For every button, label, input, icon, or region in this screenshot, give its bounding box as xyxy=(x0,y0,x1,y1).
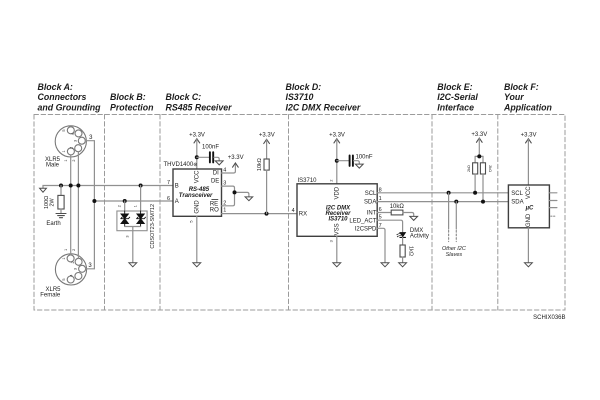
svg-text:1: 1 xyxy=(62,150,66,152)
ground C1 xyxy=(215,161,223,165)
svg-text:I2C-Serial: I2C-Serial xyxy=(437,92,478,102)
svg-text:Block F:: Block F: xyxy=(504,82,539,92)
label other I2C slaves xyxy=(442,246,466,258)
label LED D2 xyxy=(410,228,429,240)
power +3.3V VCC U1 xyxy=(189,133,205,169)
ground INT xyxy=(410,216,418,220)
header Block D xyxy=(286,82,361,113)
svg-text:SCHIX036B: SCHIX036B xyxy=(533,315,565,321)
header Block B xyxy=(110,92,154,112)
svg-text:1: 1 xyxy=(64,249,68,251)
wire uC stub dots xyxy=(551,215,556,217)
wire I2CSPD xyxy=(377,228,385,262)
block boundary A|B xyxy=(104,115,106,311)
svg-text:6: 6 xyxy=(167,196,170,202)
svg-text:+3.3V: +3.3V xyxy=(329,133,345,139)
block boundary E|F xyxy=(497,115,499,311)
label XLR5 Male xyxy=(45,157,61,168)
svg-text:Connectors: Connectors xyxy=(38,92,87,102)
svg-text:Block B:: Block B: xyxy=(110,92,146,102)
svg-text:5: 5 xyxy=(62,278,66,280)
svg-text:10kΩ: 10kΩ xyxy=(257,158,263,171)
svg-text:Female: Female xyxy=(40,292,61,298)
svg-text:2: 2 xyxy=(69,147,73,149)
svg-text:3: 3 xyxy=(73,140,77,142)
label U1 pin RE xyxy=(210,200,218,208)
wire LED_ACT xyxy=(377,220,402,232)
svg-text:2: 2 xyxy=(71,261,75,263)
svg-text:2W: 2W xyxy=(49,197,55,206)
svg-text:Slaves: Slaves xyxy=(446,252,463,258)
svg-text:Block D:: Block D: xyxy=(286,82,322,92)
svg-text:7: 7 xyxy=(167,180,170,186)
svg-text:SCL: SCL xyxy=(365,191,377,197)
junction dot TVS pin1 xyxy=(139,184,143,188)
connector J2 pin digits xyxy=(62,258,78,281)
capacitor C1 100nF xyxy=(197,152,219,162)
svg-text:Male: Male xyxy=(46,163,60,169)
svg-text:GND: GND xyxy=(194,200,200,214)
wire SDA xyxy=(377,201,508,203)
junction dot resistor tap xyxy=(59,184,63,188)
svg-text:GND: GND xyxy=(526,213,532,227)
resistor R6 2k SDA xyxy=(480,163,485,202)
ground R4 xyxy=(399,263,407,267)
svg-text:+3.3V: +3.3V xyxy=(259,133,275,139)
svg-text:IS3710: IS3710 xyxy=(286,92,314,102)
svg-text:I2CSPD: I2CSPD xyxy=(355,227,377,233)
capacitor C2 100nF xyxy=(337,156,360,166)
svg-text:2kΩ: 2kΩ xyxy=(467,165,471,172)
svg-text:RS485 Receiver: RS485 Receiver xyxy=(166,103,233,113)
svg-text:Protection: Protection xyxy=(110,103,154,113)
wire uC stub 1 xyxy=(549,192,557,194)
wire DE RE join xyxy=(222,186,249,206)
svg-text:2: 2 xyxy=(329,179,333,181)
ground DE RE xyxy=(245,197,253,201)
wire INT xyxy=(377,212,391,214)
junction dot DE RE xyxy=(233,190,237,194)
svg-text:1: 1 xyxy=(62,258,66,260)
junction dot R6 SDA xyxy=(481,200,485,204)
ground U1 xyxy=(193,263,201,267)
block boundary B|C xyxy=(159,115,161,311)
connector J2 XLR5 Female xyxy=(55,254,86,285)
svg-text:4: 4 xyxy=(292,208,295,214)
IC U2 IS3710 I2C DMX receiver box xyxy=(297,184,377,237)
svg-text:1: 1 xyxy=(223,208,226,214)
svg-text:SCL: SCL xyxy=(511,191,523,197)
svg-text:IS3710: IS3710 xyxy=(298,178,318,184)
wire GND U1 xyxy=(196,216,198,262)
wire uC stub 2 xyxy=(549,200,557,202)
svg-text:2: 2 xyxy=(72,159,76,161)
svg-text:DE: DE xyxy=(211,178,219,184)
ground uC xyxy=(525,263,533,267)
block boundary C|D xyxy=(288,115,290,311)
svg-text:2: 2 xyxy=(118,205,122,207)
junction dot VDD cap tap xyxy=(335,159,339,163)
junction dot pin1 xyxy=(69,184,73,188)
svg-text:2kΩ: 2kΩ xyxy=(488,165,492,172)
shield arrow xyxy=(40,188,47,192)
LED D2 DMX activity xyxy=(396,233,405,238)
svg-text:VDD: VDD xyxy=(334,186,340,199)
wire pin3 net male to female xyxy=(85,141,94,269)
label XLR5 Female xyxy=(40,287,61,298)
earth ground symbol xyxy=(56,214,66,218)
svg-text:Transceiver: Transceiver xyxy=(179,193,213,199)
svg-text:VCC: VCC xyxy=(526,186,532,199)
junction dot TVS pin2 xyxy=(123,199,127,203)
wire LED to R4 xyxy=(402,237,404,245)
svg-text:A: A xyxy=(175,199,179,205)
svg-text:3: 3 xyxy=(74,268,78,270)
svg-text:4: 4 xyxy=(69,275,73,277)
resistor R3 10k INT xyxy=(391,210,414,216)
svg-text:IS3710: IS3710 xyxy=(328,217,348,223)
junction dot pullup split xyxy=(477,154,481,158)
IC U1 THVD1400 RS-485 transceiver box xyxy=(173,169,222,216)
junction dot RO pullup xyxy=(265,212,269,216)
svg-text:µC: µC xyxy=(525,205,534,211)
wire A net xyxy=(94,200,173,202)
power +3.3V uC xyxy=(521,133,537,185)
svg-text:Application: Application xyxy=(503,103,552,113)
junction dot SCL slave xyxy=(447,191,451,195)
svg-text:VSS: VSS xyxy=(334,223,340,235)
wire VSS U2 xyxy=(336,236,338,262)
block boundary D|E xyxy=(431,115,433,311)
junction dot pin2 xyxy=(76,184,80,188)
svg-text:4: 4 xyxy=(71,133,75,135)
svg-text:+3.3V: +3.3V xyxy=(189,133,205,139)
ground I2CSPD xyxy=(381,263,389,267)
resistor R5 2k SCL xyxy=(473,163,478,193)
svg-text:100nF: 100nF xyxy=(202,145,219,151)
svg-text:1: 1 xyxy=(134,205,138,207)
svg-text:LED_ACT: LED_ACT xyxy=(349,218,376,224)
svg-text:1kΩ: 1kΩ xyxy=(407,246,413,256)
wire RO to RX xyxy=(222,213,298,215)
svg-text:RX: RX xyxy=(299,212,307,218)
connector J1 pin digits xyxy=(62,130,77,153)
IC U3 microcontroller box xyxy=(508,185,549,228)
svg-text:Earth: Earth xyxy=(46,221,60,227)
resistor R2 10k pullup xyxy=(259,133,275,214)
label U1 name xyxy=(179,187,213,199)
svg-text:Interface: Interface xyxy=(437,103,474,113)
svg-text:100nF: 100nF xyxy=(356,154,373,160)
svg-text:5: 5 xyxy=(62,130,66,132)
svg-text:CDSOT23-SM712: CDSOT23-SM712 xyxy=(150,204,156,249)
svg-text:3: 3 xyxy=(126,235,130,237)
svg-text:SDA: SDA xyxy=(364,200,376,206)
power +3.3V pullups xyxy=(471,132,487,163)
svg-text:INT: INT xyxy=(367,211,377,217)
svg-text:Activity: Activity xyxy=(410,234,429,240)
svg-text:Block A:: Block A: xyxy=(38,82,73,92)
label R1 value xyxy=(44,196,55,209)
junction dot SDA slave xyxy=(454,200,458,204)
resistor R4 1k xyxy=(400,245,405,263)
wire pin1 male to female xyxy=(70,155,72,255)
svg-text:VCC: VCC xyxy=(194,170,200,183)
svg-text:+3.3V: +3.3V xyxy=(521,133,537,139)
svg-text:2: 2 xyxy=(72,249,76,251)
svg-text:Block C:: Block C: xyxy=(166,92,202,102)
junction dot R5 SCL xyxy=(473,191,477,195)
svg-text:Your: Your xyxy=(504,92,524,102)
wire DI to +3.3V xyxy=(222,164,236,174)
wire uC stub 3 xyxy=(549,207,557,209)
svg-text:SDA: SDA xyxy=(511,200,523,206)
svg-text:I2C DMX Receiver: I2C DMX Receiver xyxy=(286,103,361,113)
svg-text:B: B xyxy=(175,183,179,189)
svg-text:5: 5 xyxy=(189,220,193,222)
TVS D1 CDSOT23-SM712 xyxy=(117,186,147,263)
header Block F xyxy=(503,82,552,113)
ground C2 xyxy=(355,164,363,168)
svg-text:3: 3 xyxy=(329,240,333,242)
label U2 name xyxy=(325,205,351,222)
block boundary outer dashed frame xyxy=(34,115,565,311)
header Block E xyxy=(437,82,478,113)
header Block A xyxy=(38,82,102,113)
connector J1 XLR5 Male xyxy=(55,126,86,157)
svg-text:RO: RO xyxy=(210,207,219,213)
junction dot VCC cap tap xyxy=(195,155,199,159)
wire SCL xyxy=(377,192,508,194)
resistor R1 100ohm 2W xyxy=(58,186,64,214)
svg-text:DI: DI xyxy=(213,171,219,177)
junction dot A tee xyxy=(92,199,96,203)
header Block C xyxy=(166,92,233,112)
wire GND uC xyxy=(527,228,529,263)
wire pin2 male to female xyxy=(77,152,79,259)
svg-text:Block E:: Block E: xyxy=(437,82,472,92)
ground TVS xyxy=(129,263,137,267)
wire shield bus to B xyxy=(43,186,173,189)
svg-text:and Grounding: and Grounding xyxy=(38,103,102,113)
power +3.3V DI xyxy=(228,155,244,167)
svg-text:+3.3V: +3.3V xyxy=(228,155,244,161)
wire other I2C SCL stub xyxy=(448,193,450,242)
ground U2 xyxy=(333,263,341,267)
wire other I2C SDA stub xyxy=(455,202,457,242)
svg-text:1: 1 xyxy=(64,159,68,161)
power +3.3V VDD U2 xyxy=(329,133,345,184)
svg-text:10kΩ: 10kΩ xyxy=(390,204,405,210)
svg-text:THVD1400⊛: THVD1400⊛ xyxy=(164,162,198,168)
